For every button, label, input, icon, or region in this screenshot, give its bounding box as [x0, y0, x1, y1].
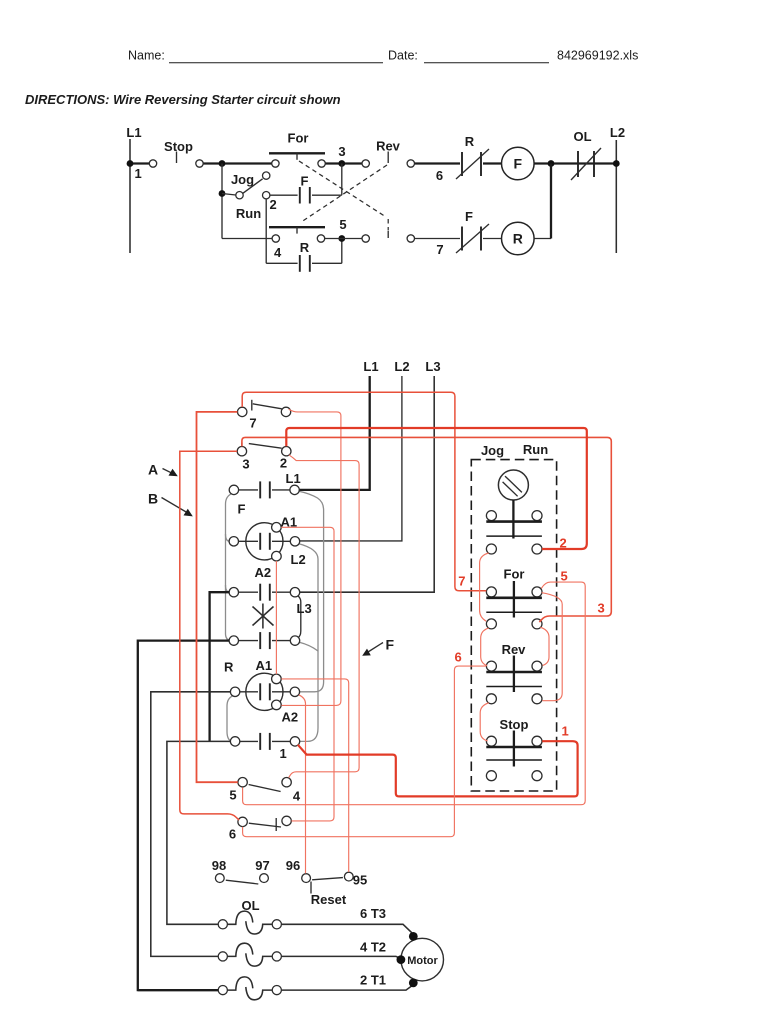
svg-text:A2: A2 — [282, 710, 299, 725]
svg-text:Reset: Reset — [311, 892, 347, 907]
wire branch down — [221, 164, 223, 239]
svg-text:Run: Run — [236, 206, 261, 221]
rail L1 — [129, 139, 131, 253]
red labels — [455, 536, 605, 739]
wire R coil A1 to reset 95 — [281, 679, 348, 872]
svg-text:97: 97 — [255, 858, 269, 873]
svg-text:F: F — [301, 174, 309, 189]
contactor labels — [224, 471, 312, 761]
svg-text:L3: L3 — [425, 359, 440, 374]
interlock contact 6 — [229, 816, 291, 841]
svg-text:2: 2 — [270, 197, 277, 212]
wire 2 contact2 to selector terminal (bold) — [286, 428, 587, 549]
wire rung1 segments — [130, 162, 616, 164]
svg-text:1: 1 — [135, 166, 142, 181]
contact OL (NC) — [571, 129, 601, 180]
wire terminal1 to OL row1 — [167, 741, 231, 924]
svg-text:4 T2: 4 T2 — [360, 940, 386, 955]
wire 2T1 — [138, 989, 218, 991]
station jumper For to Rev left — [481, 628, 489, 666]
contactor F left bus — [226, 493, 233, 640]
contact row L1-F — [229, 481, 299, 498]
coil F with A1 A2 — [229, 523, 300, 562]
svg-text:A: A — [148, 462, 158, 478]
header name/date line — [128, 49, 638, 63]
svg-text:6: 6 — [229, 827, 236, 842]
station jumper For to Rev right — [540, 627, 549, 665]
OL heater row 2 — [218, 943, 281, 966]
svg-text:2: 2 — [280, 456, 287, 471]
svg-text:F: F — [514, 156, 523, 172]
wire contact7 to For button (top feeder) — [242, 392, 486, 591]
svg-text:Stop: Stop — [500, 717, 529, 732]
svg-text:4: 4 — [274, 245, 282, 260]
svg-text:5: 5 — [561, 569, 568, 584]
svg-text:L1: L1 — [126, 125, 141, 140]
node L2 — [613, 160, 620, 167]
svg-text:Stop: Stop — [164, 139, 193, 154]
wire row4 to OL row3 — [138, 641, 229, 991]
gray hook row4 right — [299, 642, 318, 651]
wire contact7 right to R coil A2 — [281, 409, 341, 705]
contact F (NC) — [456, 209, 489, 253]
svg-text:A1: A1 — [256, 658, 273, 673]
OL heater row 1 — [218, 898, 281, 934]
svg-text:L2: L2 — [394, 359, 409, 374]
svg-text:For: For — [504, 567, 525, 582]
svg-text:4: 4 — [293, 789, 301, 804]
OL aux contact 98-97 — [212, 858, 270, 884]
wire R coil right terminal to OL 96 — [299, 695, 306, 874]
contact row 4 — [229, 632, 300, 649]
interlock contact 7 — [238, 400, 291, 431]
coil R with A1 A2 — [230, 673, 299, 710]
pushbutton Rev unit — [486, 642, 542, 704]
selector Jog/Run — [222, 172, 277, 221]
svg-text:Jog: Jog — [231, 172, 254, 187]
coil F — [502, 147, 535, 180]
svg-text:OL: OL — [573, 129, 591, 144]
svg-text:5: 5 — [229, 788, 236, 803]
wire F coil A1 to contact6 right — [281, 527, 334, 821]
svg-text:L2: L2 — [291, 552, 306, 567]
mechanical interlock dashed — [299, 161, 388, 231]
wire number 7 — [415, 238, 460, 240]
contact F (NO aux) — [270, 164, 342, 204]
label A with arrow — [148, 462, 178, 478]
pushbutton Stop unit — [486, 717, 542, 781]
wire L3row to row1 terminal — [210, 592, 230, 741]
svg-text:A2: A2 — [255, 565, 272, 580]
contact row L3 — [229, 584, 300, 601]
wire B contact7 to contact5 — [197, 412, 238, 782]
rail L2 — [615, 140, 617, 253]
junction node — [219, 160, 226, 167]
wire 5 For terminal to contact5 — [243, 582, 586, 805]
svg-text:6 T3: 6 T3 — [360, 906, 386, 921]
wire F coil A2 to R coil A1 — [275, 561, 277, 674]
wire terminal1 to Stop button (bold) — [298, 741, 578, 796]
wire A contact3 to contact6 — [180, 451, 239, 820]
svg-text:1: 1 — [562, 724, 569, 739]
svg-text:F: F — [238, 502, 246, 517]
OL reset contact 96-95 — [286, 858, 368, 907]
interlock star symbol — [253, 604, 274, 629]
svg-text:1: 1 — [280, 746, 287, 761]
svg-text:7: 7 — [436, 242, 443, 257]
station jumper For-top to Rev-bottom right — [542, 593, 563, 701]
junction node — [548, 160, 555, 167]
gray wire coil-F terminal to terminal 1 — [299, 544, 318, 742]
svg-text:L3: L3 — [297, 601, 312, 616]
svg-text:For: For — [288, 131, 309, 146]
svg-text:6: 6 — [436, 168, 443, 183]
contactor R left bus — [227, 696, 234, 742]
svg-text:Date:: Date: — [388, 49, 418, 63]
svg-text:Run: Run — [523, 442, 548, 457]
wire 6 contact6 to Rev terminal — [243, 666, 487, 837]
pushbutton Stop (NC) — [149, 139, 203, 167]
pushbutton Rev lower half (NO) — [269, 227, 325, 260]
svg-text:Motor: Motor — [407, 955, 438, 967]
svg-text:L1: L1 — [363, 359, 378, 374]
OL heater row 3 — [218, 977, 281, 1000]
svg-text:R: R — [224, 660, 234, 675]
interlock contact 5-4 — [229, 778, 301, 804]
svg-text:DIRECTIONS: Wire Reversing Sta: DIRECTIONS: Wire Reversing Starter circu… — [25, 92, 341, 107]
interlock contact 3-2 — [237, 443, 291, 472]
svg-text:R: R — [465, 134, 475, 149]
contact R (NC) — [456, 134, 489, 179]
wire 3 contact3 to For lower terminal — [242, 437, 611, 622]
wire to junction — [550, 164, 552, 239]
svg-text:98: 98 — [212, 858, 226, 873]
selector contact unit — [486, 511, 542, 554]
wire contact2 to contact4 — [289, 455, 359, 778]
svg-text:6: 6 — [455, 650, 462, 665]
svg-text:R: R — [300, 240, 310, 255]
svg-text:96: 96 — [286, 858, 300, 873]
coil R — [483, 222, 551, 255]
svg-text:7: 7 — [458, 574, 465, 589]
label F with arrow — [362, 637, 394, 656]
svg-text:OL: OL — [241, 898, 259, 913]
rung3 wire — [222, 238, 272, 240]
station jumper selector to For — [480, 553, 489, 621]
pushbutton For unit — [486, 567, 542, 629]
motor — [397, 932, 444, 987]
svg-text:L2: L2 — [610, 125, 625, 140]
svg-text:Jog: Jog — [481, 443, 504, 458]
svg-text:F: F — [465, 209, 473, 224]
svg-text:95: 95 — [353, 873, 367, 888]
label B with arrow — [148, 491, 193, 517]
gray wire L1 terminal to R coil terminal — [299, 491, 324, 692]
pushbutton For (NO) — [269, 131, 325, 168]
selector knob — [498, 470, 528, 539]
svg-text:Name:: Name: — [128, 49, 165, 63]
svg-text:5: 5 — [339, 217, 346, 232]
wire 4T2 — [282, 956, 401, 958]
svg-text:B: B — [148, 491, 158, 507]
contact row 1 — [230, 733, 299, 750]
svg-text:3: 3 — [242, 457, 249, 472]
svg-text:3: 3 — [338, 144, 345, 159]
svg-text:L1: L1 — [286, 471, 301, 486]
contact rev aux (NO) — [362, 231, 414, 242]
wire 6T3 — [282, 924, 414, 934]
svg-text:Rev: Rev — [502, 642, 527, 657]
svg-text:2: 2 — [560, 536, 567, 551]
node 3 — [338, 160, 345, 167]
svg-text:3: 3 — [598, 601, 605, 616]
wire row3 right to row4 right — [298, 596, 301, 638]
wire Rcoil to OL row2 — [151, 692, 231, 957]
svg-text:Rev: Rev — [376, 139, 401, 154]
contact Rev (NO) — [362, 139, 414, 168]
station jumper Rev to Stop left — [480, 703, 489, 741]
node 1 — [127, 160, 134, 167]
svg-text:F: F — [386, 637, 395, 653]
svg-text:842969192.xls: 842969192.xls — [557, 49, 638, 63]
svg-text:2 T1: 2 T1 — [360, 973, 386, 988]
station dashed enclosure — [471, 460, 556, 791]
svg-text:7: 7 — [249, 416, 256, 431]
node jog — [219, 190, 226, 197]
node 5 — [338, 235, 345, 242]
contact R (NO aux) branch — [266, 199, 342, 272]
svg-text:R: R — [513, 231, 523, 247]
